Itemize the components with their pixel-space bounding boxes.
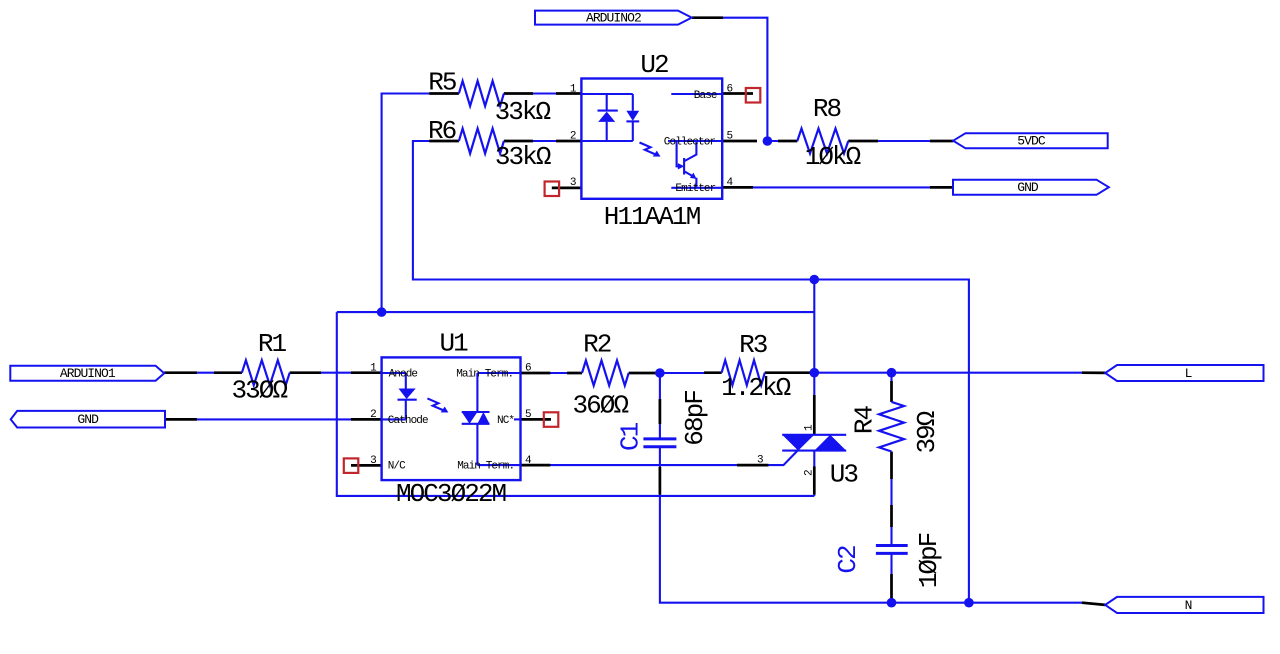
wire R3 to L flag	[765, 372, 1090, 374]
svg-text:Collector: Collector	[664, 137, 716, 149]
svg-text:Anode: Anode	[389, 369, 418, 381]
wire L line left segment U1 pin6 to R2	[521, 372, 583, 374]
resistor R4 (vertical)	[879, 402, 904, 452]
capacitor C2	[876, 546, 908, 554]
unconnected pin U2.6	[746, 88, 761, 103]
svg-text:Main Term.: Main Term.	[457, 461, 514, 473]
wire lead GND right flag	[930, 186, 953, 189]
svg-text:3: 3	[570, 177, 577, 189]
svg-text:1ØpF: 1ØpF	[914, 533, 944, 588]
svg-text:L: L	[1185, 366, 1192, 381]
node flag 5VDC	[953, 133, 1107, 148]
unconnected pin U1.5	[544, 412, 559, 427]
resistor R5 leads	[429, 92, 533, 95]
resistor R5	[459, 81, 504, 106]
svg-text:2: 2	[570, 131, 577, 143]
svg-text:2: 2	[804, 469, 816, 476]
node R5/loop	[377, 307, 387, 317]
U2 emitter arrowhead	[690, 173, 697, 179]
resistor R3 leads	[704, 371, 810, 374]
svg-text:GND: GND	[1017, 180, 1039, 195]
svg-text:6: 6	[525, 363, 532, 375]
svg-text:1: 1	[370, 363, 377, 375]
U2 pin leads right	[722, 94, 757, 188]
U2 pin leads left	[552, 94, 582, 188]
U2 phototransistor	[671, 93, 722, 95]
svg-text:GND: GND	[77, 412, 99, 427]
svg-text:3: 3	[370, 455, 377, 467]
U2 LED diode up	[598, 110, 618, 112]
svg-text:R4: R4	[850, 405, 880, 434]
node flag ARDUINO2	[535, 11, 692, 25]
U1 inner LED	[382, 373, 406, 419]
svg-text:MOC3Ø22M: MOC3Ø22M	[396, 479, 506, 509]
resistor R8	[797, 129, 848, 154]
transistor U3 triac	[782, 435, 846, 451]
U1 inner triac	[477, 373, 520, 465]
svg-text:33kΩ: 33kΩ	[495, 142, 551, 172]
U2 base light arrow	[677, 141, 679, 166]
wire R6 left to N vertical	[413, 141, 969, 603]
U2 light arrow	[640, 143, 657, 155]
wire GND left to U1 pin2	[165, 418, 382, 420]
node R6 line / loop vertical	[810, 275, 820, 285]
U1 pin leads right	[521, 373, 552, 465]
svg-text:R3: R3	[739, 330, 767, 360]
wire ARDUINO1 to U1 pin1	[164, 372, 381, 374]
svg-text:39Ω: 39Ω	[912, 411, 942, 453]
svg-text:ARDUINO1: ARDUINO1	[60, 366, 116, 381]
svg-text:Emitter: Emitter	[675, 183, 715, 195]
wire lead GND left flag	[165, 418, 197, 421]
wire R4 C2 chain	[890, 373, 892, 603]
capacitor C1 leads	[659, 399, 662, 495]
svg-text:C2: C2	[833, 546, 863, 574]
node flag N	[1105, 597, 1263, 613]
svg-text:R2: R2	[583, 330, 611, 360]
svg-text:Main Term.: Main Term.	[456, 369, 513, 381]
svg-text:1ØkΩ: 1ØkΩ	[805, 142, 861, 172]
svg-text:U2: U2	[640, 50, 668, 80]
svg-text:5VDC: 5VDC	[1017, 134, 1046, 149]
wire R5 right to U2 pin1	[504, 92, 582, 94]
svg-text:33kΩ: 33kΩ	[495, 97, 551, 127]
node R2/C1	[655, 368, 665, 378]
svg-text:1: 1	[570, 84, 577, 96]
svg-text:1.2kΩ: 1.2kΩ	[721, 373, 791, 403]
wire lead ARDUINO1 flag	[164, 371, 197, 374]
svg-text:5: 5	[525, 409, 532, 421]
svg-text:3: 3	[757, 454, 764, 466]
node flag L	[1105, 365, 1263, 381]
svg-text:4: 4	[727, 177, 734, 189]
wire ARDUINO2 to U2 pin5 / R8 node	[692, 18, 767, 141]
resistor R1 leads	[214, 371, 321, 374]
resistor R2	[582, 361, 629, 386]
resistor R6	[459, 129, 504, 154]
wire U2 pin4 to GND flag	[722, 186, 953, 188]
resistor R1	[242, 360, 290, 385]
unconnected pin U1.3	[344, 458, 359, 473]
wire node to R8 left	[767, 140, 797, 142]
wire C1 top lead	[659, 373, 661, 439]
svg-text:Cathode: Cathode	[388, 415, 428, 427]
wire loop around U1 (L net)	[337, 280, 815, 496]
wire R2 to R3	[629, 372, 722, 374]
svg-text:H11AA1M: H11AA1M	[604, 202, 700, 232]
U2 LED diode down	[626, 120, 639, 122]
svg-text:ARDUINO2: ARDUINO2	[586, 11, 641, 26]
unconnected pin U2.3	[545, 182, 560, 197]
svg-text:36ØΩ: 36ØΩ	[572, 390, 628, 420]
resistor R3	[722, 360, 765, 385]
svg-text:4: 4	[525, 455, 532, 467]
U3 pin leads	[737, 395, 814, 495]
capacitor C1	[643, 439, 676, 447]
resistor R2 leads	[567, 372, 660, 375]
U1 light arrow	[427, 398, 444, 410]
svg-text:1: 1	[804, 424, 816, 431]
svg-text:2: 2	[370, 409, 377, 421]
node flag ARDUINO1	[10, 366, 164, 381]
svg-text:R6: R6	[428, 116, 456, 146]
node L/U3	[810, 368, 820, 378]
wire lead L flag	[1082, 371, 1105, 374]
wire lead 5VDC flag	[930, 140, 953, 143]
node flag GND right	[953, 180, 1109, 195]
node N/R6 vertical	[964, 598, 974, 608]
wire R5 left to loop top	[382, 94, 431, 313]
svg-text:C1: C1	[615, 422, 645, 451]
svg-text:R1: R1	[258, 329, 287, 359]
U1 pin5 stub	[514, 418, 521, 420]
wire lead ARDUINO2 flag	[692, 16, 723, 19]
resistor R8 leads	[778, 140, 878, 143]
svg-text:6: 6	[727, 84, 734, 96]
wire lead N flag	[1082, 603, 1105, 605]
svg-text:NC*: NC*	[497, 415, 514, 427]
wire U1 pin4 to U3 gate	[521, 451, 798, 465]
capacitor C2 bottom lead	[890, 505, 893, 603]
wire R6 right to U2 pin2	[504, 140, 582, 142]
U1 pin leads left	[351, 373, 382, 466]
svg-text:R8: R8	[813, 94, 841, 124]
op-amp U2 optocoupler H11AA1M box	[581, 79, 722, 199]
svg-text:N: N	[1185, 598, 1192, 613]
node flag GND left	[11, 411, 165, 428]
svg-text:68pF: 68pF	[680, 391, 710, 446]
wire R8 right to 5VDC flag	[848, 140, 953, 142]
svg-text:N/C: N/C	[388, 461, 406, 473]
U2 inner LED rails	[581, 94, 632, 141]
resistor R6 leads	[429, 140, 533, 143]
svg-text:U1: U1	[440, 328, 469, 358]
svg-text:5: 5	[727, 131, 734, 143]
op-amp U1 optocoupler MOC3022M box	[382, 357, 521, 480]
node N/C2	[887, 598, 897, 608]
svg-text:R5: R5	[428, 67, 456, 97]
svg-text:33ØΩ: 33ØΩ	[231, 376, 287, 406]
resistor R4 leads	[890, 381, 893, 479]
node L/R4	[887, 368, 897, 378]
svg-text:Base: Base	[694, 90, 717, 102]
svg-text:U3: U3	[830, 460, 858, 490]
node ARDUINO2/R8/U2pin5	[763, 136, 773, 146]
wire C1 bottom / N line to N flag	[660, 447, 1105, 605]
